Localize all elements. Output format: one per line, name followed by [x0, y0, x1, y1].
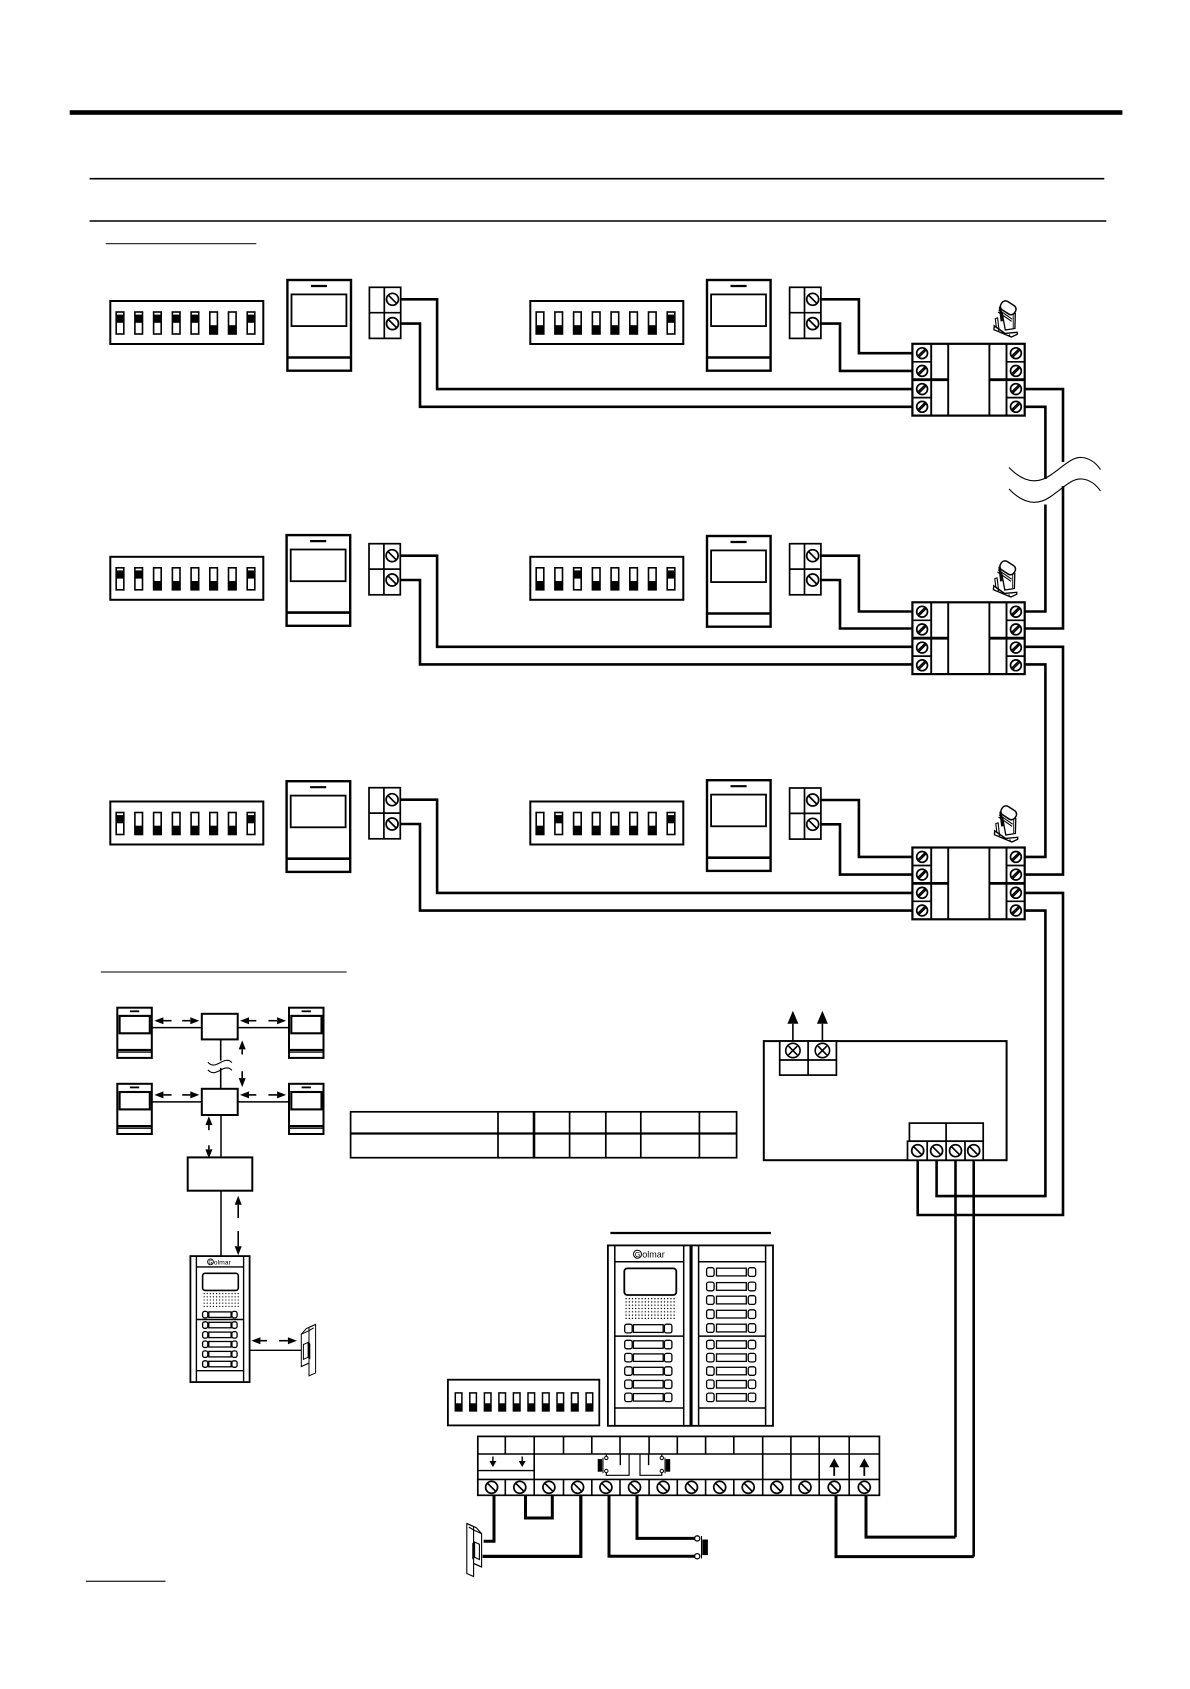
monitor 3 (middle-left) [287, 535, 351, 626]
overview distributor box bottom [202, 1089, 238, 1115]
wire: terminal 5 to exit button [609, 1495, 695, 1556]
wire: power supply terminal 3 down to door panel terminal 14 [954, 1160, 957, 1537]
overview lock release striker [301, 1324, 315, 1375]
overview link distributor to monitor B [238, 1027, 289, 1029]
overview arrows door panel to lock [260, 1340, 267, 1342]
lock relay contact symbol left [598, 1454, 629, 1475]
header thin rule 1 [90, 178, 1105, 180]
monitor 1 (top-left) [287, 280, 351, 371]
wire: monitor 5 terminal to distributor 3 row 3 [400, 800, 912, 893]
monitor 4 (middle-right) [707, 536, 771, 627]
overview link monitor C to distributor [152, 1101, 202, 1103]
svg-text:olmar: olmar [214, 1259, 232, 1266]
wire: monitor 3 terminal to distributor 2 row 3 [400, 556, 912, 647]
dip switch block, monitor 4 address [530, 557, 683, 600]
wire: monitor 1 terminal to distributor 1 row 3 [401, 299, 913, 389]
wire: terminal 14 to power supply [866, 1495, 956, 1537]
riser wire: distributor 3 row 3 down to power supply terminal 1 [918, 893, 1063, 1215]
jumper on distributor 3 [994, 804, 1018, 842]
monitor 5 connection terminal [369, 788, 400, 839]
dip switch block, monitor 5 address [110, 802, 263, 845]
riser wire: distributor 3 row 4 down to power supply terminal 2 [937, 911, 1046, 1197]
footer underline [86, 1580, 166, 1582]
terminal strip down arrows [492, 1457, 494, 1462]
overview monitor A [117, 1008, 152, 1058]
power supply unit [764, 1041, 1007, 1160]
wire: terminal 1 to lock release [484, 1495, 494, 1541]
riser wire: distributor 2 row 3 down to distributor 3 row 2 [1025, 647, 1063, 875]
wire: power supply terminal 4 down to door panel terminal 13 [972, 1160, 975, 1556]
jumper wire terminals 2-3 [526, 1495, 553, 1518]
wire: terminal 4 to lock release [483, 1495, 581, 1556]
dip switch block, monitor 1 address [110, 301, 263, 344]
wire: monitor 6 terminal to distributor 3 row 1 [821, 800, 913, 857]
cable break squiggle [1009, 457, 1101, 502]
overview line distributor to power supply [220, 1115, 222, 1157]
door panel overline [610, 1232, 771, 1234]
overview monitor C [117, 1084, 152, 1134]
wire: monitor 1 terminal to distributor 1 row 4 [401, 324, 913, 407]
monitor 1 connection terminal [369, 287, 400, 338]
terminal strip screws [486, 1481, 871, 1493]
monitor 3 connection terminal [369, 544, 400, 595]
monitor 6 connection terminal [790, 788, 821, 839]
header thin rule 2 [90, 220, 1107, 222]
wire: monitor 3 terminal to distributor 2 row 4 [400, 580, 912, 664]
power supply mains input terminals [780, 1041, 837, 1075]
monitor 2 (top-right) [707, 280, 771, 371]
overview power supply box [188, 1157, 253, 1190]
door panel dip switch block (10 switches) [448, 1380, 599, 1426]
exit push button [695, 1536, 708, 1559]
power supply output terminal block [909, 1123, 983, 1141]
svg-text:olmar: olmar [642, 1249, 665, 1259]
riser wire: distributor 2 row 4 down to distributor 3 row 1 [1025, 664, 1046, 857]
reference table [351, 1112, 737, 1158]
header thick rule [70, 110, 1123, 115]
overview line power supply to door panel [220, 1191, 222, 1256]
overview arrows on riser [241, 1049, 243, 1054]
mains arrows [792, 1024, 794, 1041]
monitor 6 (lower-right) [707, 780, 771, 871]
overview riser line with break [220, 1039, 222, 1060]
distributor 2 (middle floor) [912, 602, 1024, 674]
overview line door panel to lock release [250, 1349, 301, 1351]
dip switch block, monitor 2 address [530, 301, 683, 344]
door panel module 2 (button extension) [692, 1245, 773, 1425]
wire: monitor 5 terminal to distributor 3 row 4 [400, 824, 912, 911]
wire: monitor 6 terminal to distributor 3 row 2 [821, 824, 913, 874]
wire: monitor 2 terminal to distributor 1 row 2 [821, 324, 913, 371]
monitor 2 connection terminal [790, 287, 821, 338]
wire: terminal 13 to power supply [836, 1495, 974, 1556]
dip switch block, monitor 3 address [110, 557, 263, 600]
door panel terminal strip [478, 1436, 880, 1495]
monitor 4 connection terminal [790, 544, 821, 595]
overview section underline [101, 971, 347, 973]
overview cable break squiggle [208, 1060, 232, 1072]
riser wire: distributor 1 row 4 down to distributor 2 row 1 [1025, 407, 1046, 479]
wire: monitor 4 terminal to distributor 2 row 2 [821, 580, 913, 629]
overview link monitor A to distributor [152, 1027, 202, 1029]
monitor 5 (lower-left) [287, 781, 351, 872]
wire: terminal 6 to exit button [637, 1495, 695, 1538]
overview door panel [190, 1256, 249, 1382]
terminal strip up arrows [833, 1467, 835, 1476]
svg-text:G: G [635, 1250, 641, 1259]
dip switch block, monitor 6 address [530, 802, 683, 845]
wire: monitor 2 terminal to distributor 1 row 1 [821, 299, 913, 353]
jumper on distributor 1 [994, 299, 1018, 337]
door panel module 1 (speaker/display) [608, 1245, 691, 1425]
overview monitor B [289, 1008, 324, 1058]
distributor 3 (first floor) [912, 848, 1024, 920]
overview monitor D [289, 1084, 324, 1134]
overview link distributor to monitor D [238, 1101, 289, 1103]
section title underline [106, 243, 257, 245]
riser wire: distributor 1 row 3 down to distributor 2 row 2 [1025, 389, 1063, 462]
svg-text:G: G [208, 1260, 212, 1266]
jumper on distributor 2 [993, 559, 1017, 597]
overview distributor box top [202, 1014, 238, 1040]
lock release striker (bottom) [467, 1524, 482, 1577]
distributor 1 (top floor) [912, 344, 1024, 416]
lock relay contact symbol right [640, 1454, 670, 1475]
wire: monitor 4 terminal to distributor 2 row 1 [821, 556, 913, 612]
